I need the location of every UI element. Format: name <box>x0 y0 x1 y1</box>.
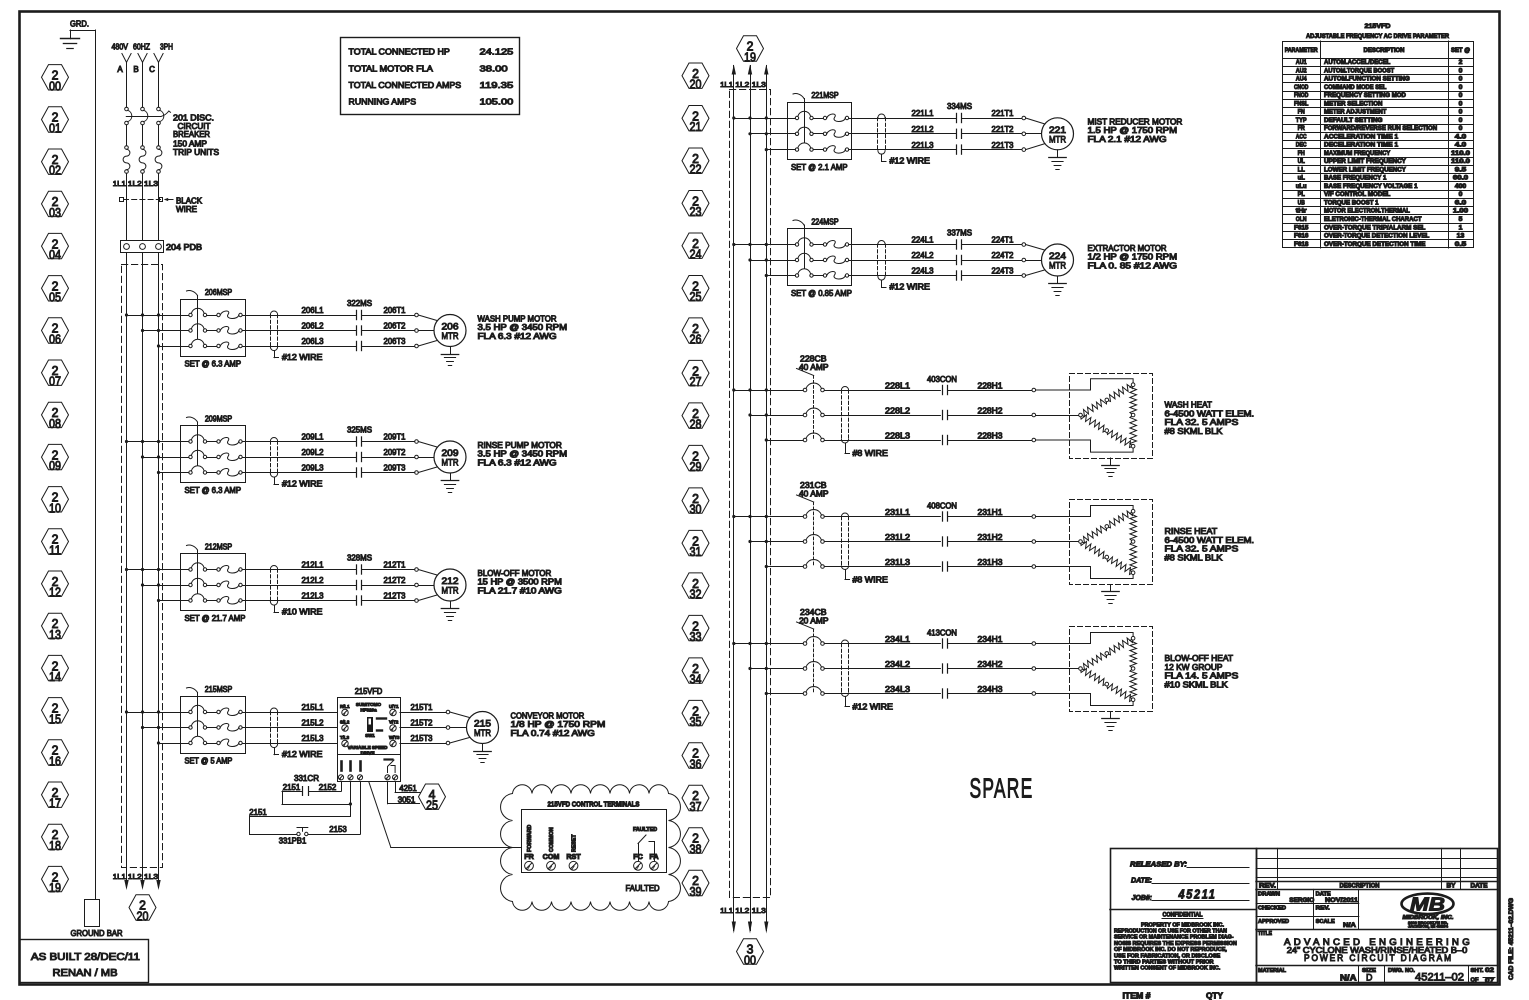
wire 215L1 <box>245 712 338 714</box>
svg-text:07: 07 <box>1485 978 1495 985</box>
wire 212T1 <box>362 569 415 571</box>
svg-text:DRIVE: DRIVE <box>360 751 374 756</box>
trip coil 201 <box>155 146 162 174</box>
supply labels 480V 60HZ 3PH <box>112 43 174 52</box>
heater terminal <box>1032 540 1036 544</box>
circuit breaker 201 poles <box>125 107 164 125</box>
wire 209 phase 1 tap to starter <box>127 441 189 443</box>
node 2/27 line-number hexagon <box>682 360 709 389</box>
svg-text:V/F CONTROL MODEL: V/F CONTROL MODEL <box>1324 191 1391 198</box>
motor terminal <box>446 710 450 714</box>
cable marker 212MSP branch <box>270 565 277 605</box>
wire breaker to trip coil <box>142 125 144 146</box>
svg-text:206L1: 206L1 <box>302 306 325 315</box>
svg-text:CONFIDENTIAL: CONFIDENTIAL <box>1163 913 1203 919</box>
wire 206T2 <box>362 330 415 332</box>
wire 224 phase 3 tap to starter <box>766 275 795 277</box>
svg-text:37: 37 <box>690 799 702 814</box>
motor 224 MTR <box>1042 244 1074 276</box>
motor terminal <box>446 741 450 745</box>
svg-text:OVER-TORQUE DETECTION TIME: OVER-TORQUE DETECTION TIME <box>1324 241 1425 248</box>
svg-text:TOTAL CONNECTED HP: TOTAL CONNECTED HP <box>349 47 451 57</box>
contactor contact 408CON <box>943 512 948 571</box>
svg-text:45211–02: 45211–02 <box>1415 971 1464 983</box>
junction <box>157 726 160 729</box>
svg-text:DATE: DATE <box>1471 884 1488 890</box>
svg-text:PROPERTY OF MIDBROOK INC.: PROPERTY OF MIDBROOK INC. <box>1141 922 1225 928</box>
wire 234H3 <box>948 693 1032 695</box>
svg-text:T/L3: T/L3 <box>340 735 350 740</box>
wire 234 phase 3 tap to breaker <box>766 693 803 695</box>
node 2/32 line-number hexagon <box>682 573 709 602</box>
svg-text:DWG. NO.: DWG. NO. <box>1388 968 1416 974</box>
svg-text:D: D <box>1366 973 1373 984</box>
svg-text:15: 15 <box>49 711 61 726</box>
svg-text:08: 08 <box>49 416 61 431</box>
wire 209L3 <box>245 472 356 474</box>
svg-text:224T1: 224T1 <box>992 236 1015 245</box>
motor starter 209MSP <box>181 417 246 482</box>
net labels 1L1 1L2 1L3 middle bus top <box>720 80 766 89</box>
cable marker 221MSP branch <box>878 114 886 154</box>
wire 206L2 <box>245 330 356 332</box>
node 2/06 line-number hexagon <box>42 318 69 347</box>
relay contact 331CR <box>303 787 309 796</box>
svg-text:231H1: 231H1 <box>978 508 1004 517</box>
heater enclosure 231 <box>1070 500 1153 585</box>
svg-text:206L2: 206L2 <box>302 322 325 331</box>
svg-text:1L2: 1L2 <box>735 906 749 915</box>
motor terminal <box>415 599 419 603</box>
svg-text:322MS: 322MS <box>347 299 372 308</box>
svg-text:FLA 0. 85 #12 AWG: FLA 0. 85 #12 AWG <box>1088 261 1178 270</box>
contactor contact 328MS <box>357 565 362 605</box>
wire 228L1 <box>824 390 940 392</box>
svg-text:07: 07 <box>49 374 61 389</box>
svg-text:FC: FC <box>633 852 643 861</box>
svg-text:FLA 32. 5 AMPS: FLA 32. 5 AMPS <box>1165 418 1239 427</box>
svg-text:ELETRONIC-THERMAL CHARACT: ELETRONIC-THERMAL CHARACT <box>1324 216 1422 223</box>
ground heater 228 <box>1102 458 1119 477</box>
wire 234L3 <box>824 693 940 695</box>
node 2/09 line-number hexagon <box>42 444 69 473</box>
svg-text:234L2: 234L2 <box>885 660 911 669</box>
junction <box>141 710 144 713</box>
svg-text:MIST REDUCER MOTOR: MIST REDUCER MOTOR <box>1088 117 1183 126</box>
svg-text:FR: FR <box>524 852 534 861</box>
svg-text:FAULTED: FAULTED <box>633 827 657 833</box>
svg-text:0: 0 <box>1459 92 1463 99</box>
svg-text:234H3: 234H3 <box>978 685 1004 694</box>
cable marker 209MSP branch <box>270 438 277 478</box>
cable marker 224MSP branch <box>878 241 886 281</box>
heating elements delta 231 <box>1079 509 1137 574</box>
svg-text:215L1: 215L1 <box>302 703 325 712</box>
wire 221L1 <box>852 118 957 120</box>
svg-text:17: 17 <box>49 796 61 811</box>
svg-text:1L2: 1L2 <box>128 872 142 881</box>
junction <box>141 329 144 332</box>
motor description 215 MTR <box>511 711 606 738</box>
svg-text:24: 24 <box>690 247 702 262</box>
cloud 215VFD control terminals <box>501 785 681 911</box>
svg-text:RESET: RESET <box>572 834 578 852</box>
label 231CB <box>799 481 829 499</box>
wire trip coil to PDB <box>126 173 128 240</box>
ground bar <box>85 900 100 927</box>
node 2/11 line-number hexagon <box>42 529 69 558</box>
junction <box>748 388 751 391</box>
svg-text:MTR: MTR <box>442 458 459 469</box>
svg-text:228L2: 228L2 <box>885 406 911 415</box>
ground motor 209 MTR <box>441 473 458 493</box>
svg-text:400: 400 <box>1455 183 1467 190</box>
svg-text:APPROVED: APPROVED <box>1258 919 1289 925</box>
junction <box>141 313 144 316</box>
junction <box>141 455 144 458</box>
wire 228 phase 1 tap to breaker <box>734 390 803 392</box>
junction <box>732 116 735 119</box>
svg-text:3.5 HP @ 3450 RPM: 3.5 HP @ 3450 RPM <box>478 450 568 459</box>
svg-text:WASH PUMP MOTOR: WASH PUMP MOTOR <box>478 314 557 323</box>
wire bus 1L2 left <box>142 253 144 888</box>
svg-text:RST: RST <box>566 852 581 861</box>
svg-text:FORWARD/REVERSE RUN SELECTION: FORWARD/REVERSE RUN SELECTION <box>1324 125 1438 132</box>
svg-text:1L2: 1L2 <box>128 179 142 188</box>
motor terminal <box>415 313 419 317</box>
title block revision table <box>1256 848 1498 982</box>
svg-text:221T2: 221T2 <box>992 125 1015 134</box>
junction <box>748 413 751 416</box>
svg-text:228H2: 228H2 <box>978 406 1004 415</box>
wire 231 phase 3 tap to breaker <box>766 566 803 568</box>
wire 221T3 <box>962 149 1022 151</box>
heater element wires 231 <box>1036 506 1134 579</box>
svg-text:TYP: TYP <box>1296 117 1307 124</box>
node 2/19 continuation hexagon top <box>737 36 764 65</box>
node 2/33 line-number hexagon <box>682 615 709 644</box>
junction <box>765 565 768 568</box>
svg-text:C: C <box>149 65 155 74</box>
svg-text:231L2: 231L2 <box>885 533 911 542</box>
svg-text:#12 WIRE: #12 WIRE <box>890 157 930 166</box>
wire-size leader 231CB branch <box>845 570 888 585</box>
heating elements delta 228 <box>1079 383 1137 448</box>
svg-text:tHr: tHr <box>1296 208 1308 215</box>
svg-text:20: 20 <box>690 77 702 92</box>
svg-text:DECELERATION TIME 1: DECELERATION TIME 1 <box>1324 142 1399 149</box>
wire 228H3 <box>948 440 1032 442</box>
svg-text:212MSP: 212MSP <box>205 543 232 552</box>
svg-text:224L3: 224L3 <box>912 267 935 276</box>
svg-text:209L1: 209L1 <box>302 433 325 442</box>
wire 224T3 <box>962 275 1022 277</box>
heater terminal <box>1032 692 1036 696</box>
svg-text:29: 29 <box>690 459 702 474</box>
wire 228H1 <box>948 390 1032 392</box>
motor leads 224 MTR <box>1026 245 1045 276</box>
junction <box>765 413 768 416</box>
ground motor 212 MTR <box>441 601 458 621</box>
heater description 228 <box>1165 401 1255 436</box>
svg-text:215VFD CONTROL TERMINALS: 215VFD CONTROL TERMINALS <box>548 800 640 809</box>
svg-text:221L1: 221L1 <box>912 109 935 118</box>
svg-text:413CON: 413CON <box>927 629 957 638</box>
arrow left bus to sheet continuation <box>156 880 160 890</box>
svg-text:234L1: 234L1 <box>885 635 911 644</box>
svg-text:212L3: 212L3 <box>302 592 325 601</box>
svg-text:FLA 0.74 #12 AWG: FLA 0.74 #12 AWG <box>511 729 595 738</box>
node 2/35 line-number hexagon <box>682 700 709 729</box>
junction <box>765 116 768 119</box>
svg-text:30: 30 <box>690 502 702 517</box>
svg-text:SERVICE OR MAINTENANCE PROBLEM: SERVICE OR MAINTENANCE PROBLEM DIAG- <box>1114 935 1234 941</box>
svg-text:AUTOM.TORQUE BOOST: AUTOM.TORQUE BOOST <box>1324 67 1394 74</box>
wire 231 phase 2 tap to breaker <box>750 541 803 543</box>
motor description 212 MTR <box>478 569 563 596</box>
wire 224T2 <box>962 260 1022 262</box>
wire phase B drop <box>142 62 144 107</box>
drive output terminal V/T2 <box>389 720 399 732</box>
wire 206L1 <box>245 315 356 317</box>
ground motor 206 MTR <box>441 347 458 366</box>
svg-text:MTR: MTR <box>442 331 459 342</box>
node 2/02 line-number hexagon <box>42 149 69 178</box>
svg-text:ACCELERATION TIME 1: ACCELERATION TIME 1 <box>1324 133 1399 140</box>
svg-text:SET @ 5 AMP: SET @ 5 AMP <box>185 756 233 765</box>
heater terminal <box>1032 438 1036 442</box>
motor description 206 MTR <box>478 314 568 341</box>
svg-text:221MSP: 221MSP <box>811 91 838 100</box>
svg-text:33: 33 <box>690 629 702 644</box>
power distribution block 204 PDB <box>121 241 164 253</box>
wire 221 phase 1 tap to starter <box>734 118 796 120</box>
arrow middle bus from sheet 2/19 <box>764 65 768 75</box>
heater terminal <box>1032 565 1036 569</box>
motor terminal <box>1022 116 1026 120</box>
svg-text:#10 SKML BLK: #10 SKML BLK <box>1165 680 1229 689</box>
wire 224 phase 2 tap to starter <box>750 260 795 262</box>
node 2/20 continuation hexagon <box>129 895 156 924</box>
heater terminal <box>1032 413 1036 417</box>
svg-text:UB: UB <box>1298 199 1306 206</box>
motor terminal <box>446 726 450 730</box>
svg-text:BLOW-OFF HEAT: BLOW-OFF HEAT <box>1165 654 1234 663</box>
svg-text:00: 00 <box>49 78 61 93</box>
svg-text:209L3: 209L3 <box>302 464 325 473</box>
svg-text:OF MIDBROOK INC. DO NOT REPROD: OF MIDBROOK INC. DO NOT REPRODUCE, <box>1114 947 1227 953</box>
svg-text:BASE FREQUENCY 1: BASE FREQUENCY 1 <box>1324 175 1387 182</box>
svg-text:BASE FREQUENCY VOLTAGE 1: BASE FREQUENCY VOLTAGE 1 <box>1324 183 1418 190</box>
heater element wires 228 <box>1036 379 1134 452</box>
svg-text:331CR: 331CR <box>294 774 319 783</box>
wire 215L2 <box>245 727 338 729</box>
svg-text:0: 0 <box>1459 109 1463 116</box>
node 4/25 hexagon <box>419 784 446 813</box>
node 2/21 line-number hexagon <box>682 106 709 135</box>
wire 209T2 <box>362 457 415 459</box>
title text <box>1258 931 1473 963</box>
wire 206 phase 3 tap to starter <box>159 346 189 348</box>
svg-text:31: 31 <box>690 544 702 559</box>
cable marker 206MSP branch <box>270 311 277 351</box>
svg-text:FNSL: FNSL <box>1294 100 1309 107</box>
junction <box>765 258 768 261</box>
svg-text:234L3: 234L3 <box>885 685 911 694</box>
drive input terminal R/L1 <box>340 704 350 716</box>
svg-text:WRITTEN CONSENT OF MIDBROOK IN: WRITTEN CONSENT OF MIDBROOK INC. <box>1114 966 1221 972</box>
svg-text:4251: 4251 <box>399 784 417 793</box>
svg-text:206L3: 206L3 <box>302 337 325 346</box>
drive caption text <box>348 745 389 756</box>
wire 228 phase 3 tap to breaker <box>766 440 803 442</box>
wire 4251 <box>395 782 420 793</box>
svg-text:00: 00 <box>744 953 756 968</box>
svg-text:MATERIAL: MATERIAL <box>1258 968 1287 974</box>
svg-text:CHECKED: CHECKED <box>1258 905 1286 911</box>
svg-text:QTY: QTY <box>1206 992 1224 1000</box>
node 2/01 line-number hexagon <box>42 107 69 136</box>
svg-text:228L3: 228L3 <box>885 431 911 440</box>
svg-text:METER SELECTION: METER SELECTION <box>1324 100 1383 107</box>
wire 228 phase 2 tap to breaker <box>750 415 803 417</box>
svg-text:212L2: 212L2 <box>302 576 325 585</box>
svg-text:2153: 2153 <box>329 825 347 834</box>
arrow left bus to sheet continuation <box>140 880 144 890</box>
motor terminal <box>1022 274 1026 278</box>
svg-text:11: 11 <box>49 543 61 558</box>
svg-text:OLN: OLN <box>1296 216 1307 223</box>
circuit breaker 234CB <box>797 622 825 695</box>
drive brand text <box>356 702 382 712</box>
svg-text:215T3: 215T3 <box>411 734 434 743</box>
svg-text:206MSP: 206MSP <box>205 288 232 297</box>
junction <box>748 642 751 645</box>
wire-size leader 215 branch <box>274 748 322 760</box>
heater element wires 234 <box>1036 633 1134 706</box>
wire 215T1 <box>400 712 446 714</box>
net labels 1L1 1L2 1L3 left bus top <box>113 179 158 188</box>
wire 212T2 <box>362 585 415 587</box>
wire 231H1 <box>948 516 1032 518</box>
svg-text:14: 14 <box>49 669 61 684</box>
svg-text:02: 02 <box>49 163 61 178</box>
svg-text:0.5: 0.5 <box>1455 241 1467 248</box>
arrow middle bus from sheet 2/19 <box>732 65 736 75</box>
svg-text:25: 25 <box>690 289 702 304</box>
svg-text:SET @ 6.3 AMP: SET @ 6.3 AMP <box>185 359 242 368</box>
svg-text:OF: OF <box>1471 978 1480 984</box>
svg-text:JACKSON, MI 49204: JACKSON, MI 49204 <box>1408 925 1448 929</box>
svg-text:SHT.: SHT. <box>1471 968 1485 974</box>
svg-text:PL: PL <box>1298 191 1305 198</box>
svg-text:BREAKER: BREAKER <box>173 130 210 139</box>
svg-text:1: 1 <box>1459 224 1463 231</box>
junction <box>125 568 128 571</box>
motor terminal <box>415 583 419 587</box>
svg-text:212T3: 212T3 <box>384 592 407 601</box>
wire 224L1 <box>852 244 957 246</box>
node 2/39 line-number hexagon <box>682 870 709 899</box>
svg-text:215MSP: 215MSP <box>205 685 233 694</box>
junction <box>157 344 160 347</box>
svg-text:COM: COM <box>543 852 560 861</box>
wire common drop <box>282 782 351 816</box>
svg-text:N/A: N/A <box>1343 922 1356 929</box>
wire 209T1 <box>362 441 415 443</box>
svg-text:MB: MB <box>1410 894 1445 915</box>
svg-text:#12 WIRE: #12 WIRE <box>282 480 322 489</box>
wire middle bus vertical <box>750 66 752 931</box>
title block bottom row <box>1256 966 1498 985</box>
wire 215T2 <box>400 727 446 729</box>
svg-text:CNOD: CNOD <box>1294 84 1309 91</box>
junction <box>765 515 768 518</box>
wire 221L2 <box>852 133 957 135</box>
svg-text:0: 0 <box>1459 117 1463 124</box>
svg-text:DRAWN: DRAWN <box>1258 891 1280 897</box>
node 3/00 continuation hexagon bottom <box>737 939 764 968</box>
junction <box>765 148 768 151</box>
net labels 1L1 1L2 1L3 middle bus bottom <box>720 906 766 915</box>
wire 234 phase 2 tap to breaker <box>750 668 803 670</box>
wire 212 phase 3 tap to starter <box>159 600 189 602</box>
svg-text:NOSIS REQUIRES THE EXPRESS PER: NOSIS REQUIRES THE EXPRESS PERMISSION <box>1114 941 1237 947</box>
svg-text:UPPER LIMIT FREQUENCY: UPPER LIMIT FREQUENCY <box>1324 158 1407 165</box>
svg-text:5: 5 <box>1459 216 1463 223</box>
black wire dashed marker <box>120 198 163 202</box>
svg-text:3.5 HP @ 3450 RPM: 3.5 HP @ 3450 RPM <box>478 323 568 332</box>
node 2/34 line-number hexagon <box>682 658 709 687</box>
wire 231L1 <box>824 516 940 518</box>
node 2/29 line-number hexagon <box>682 445 709 474</box>
svg-text:0: 0 <box>1459 125 1463 132</box>
wire 224L2 <box>852 260 957 262</box>
svg-text:05: 05 <box>49 289 61 304</box>
svg-text:MTR: MTR <box>442 586 459 597</box>
svg-text:OVER-TORQUE TRIP/ALARM SEL: OVER-TORQUE TRIP/ALARM SEL <box>1324 224 1426 231</box>
ground motor 215 MTR <box>474 744 491 763</box>
svg-text:206T3: 206T3 <box>384 337 407 346</box>
svg-text:18: 18 <box>49 838 61 853</box>
node 2/04 line-number hexagon <box>42 233 69 262</box>
motor leads 221 MTR <box>1026 118 1045 150</box>
node 2/18 line-number hexagon <box>42 824 69 853</box>
svg-text:MTR: MTR <box>1049 134 1066 145</box>
svg-text:0: 0 <box>1459 100 1463 107</box>
svg-text:110.0: 110.0 <box>1451 158 1471 165</box>
motor leads 206 MTR <box>418 315 437 346</box>
svg-text:27: 27 <box>690 374 702 389</box>
svg-text:06: 06 <box>49 332 61 347</box>
svg-text:212T2: 212T2 <box>384 576 407 585</box>
svg-text:FLA 6.3 #12 AWG: FLA 6.3 #12 AWG <box>478 332 557 341</box>
contactor contact 325MS <box>357 437 362 477</box>
svg-text:01: 01 <box>49 121 61 136</box>
motor terminal <box>415 440 419 444</box>
svg-text:USE FOR FABRICATION, OR DISCLO: USE FOR FABRICATION, OR DISCLOSE <box>1114 953 1221 959</box>
svg-text:10: 10 <box>49 500 61 515</box>
motor starter 224MSP <box>788 220 852 285</box>
junction <box>157 599 160 602</box>
svg-text:PARAMETER: PARAMETER <box>1285 48 1319 54</box>
svg-text:1/8 HP @ 1750 RPM: 1/8 HP @ 1750 RPM <box>511 720 606 729</box>
contactor contact 334MS <box>957 113 962 154</box>
wire 209T3 <box>362 472 415 474</box>
svg-text:12 KW GROUP: 12 KW GROUP <box>1165 663 1223 672</box>
svg-text:#12 WIRE: #12 WIRE <box>890 283 930 292</box>
svg-text:FLA 6.3 #12 AWG: FLA 6.3 #12 AWG <box>478 458 557 467</box>
